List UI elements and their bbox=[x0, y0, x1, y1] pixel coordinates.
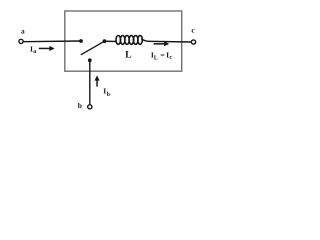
node: switch left contact bbox=[79, 39, 83, 43]
svg-text:a: a bbox=[21, 26, 25, 35]
svg-text:b: b bbox=[107, 92, 110, 98]
wire pivot to inductor bbox=[105, 40, 117, 42]
wire a to switch bbox=[23, 40, 81, 43]
terminal b bbox=[88, 105, 92, 109]
wire inductor to terminal c bbox=[141, 39, 191, 42]
node: switch pivot contact bbox=[103, 39, 107, 43]
node: b junction dot bbox=[88, 58, 92, 62]
terminal c bbox=[191, 40, 195, 44]
current arrow I_L bbox=[154, 41, 170, 46]
svg-text:a: a bbox=[33, 49, 36, 55]
box enclosure bbox=[65, 11, 182, 71]
svg-text:L: L bbox=[154, 56, 158, 62]
svg-text:b: b bbox=[78, 101, 82, 110]
wire b branch bbox=[89, 60, 91, 104]
svg-text:L: L bbox=[125, 50, 132, 61]
current arrow I_b bbox=[95, 75, 100, 86]
svg-text:=: = bbox=[160, 51, 164, 60]
switch blade (open) bbox=[81, 41, 105, 55]
inductor L bbox=[116, 36, 142, 45]
current arrow I_a bbox=[39, 46, 55, 51]
svg-text:I: I bbox=[103, 87, 106, 96]
svg-text:c: c bbox=[169, 55, 172, 61]
terminal a bbox=[19, 39, 23, 43]
